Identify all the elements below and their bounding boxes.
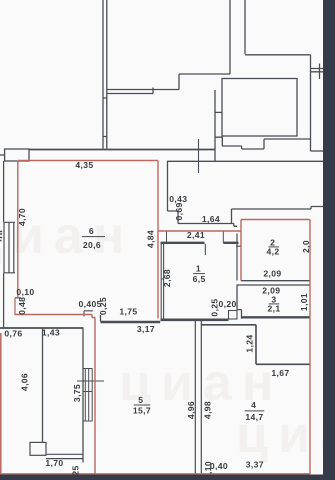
room 6 label [82, 226, 105, 250]
label 0,10 rotated bottom [203, 461, 213, 474]
wall: room3 bottom y=317.3 [242, 316, 311, 318]
label 1,64 [202, 214, 220, 224]
svg-text:15,7: 15,7 [133, 406, 151, 416]
wall: top-left double vertical corridor wall x=103/107 [103, 0, 107, 149]
square box bottom-left [30, 442, 46, 455]
wall: stepped landing wall y=146/149/139 [222, 139, 311, 149]
label 1,70 [45, 458, 63, 468]
label 1,75 [119, 307, 137, 317]
red: room1 top y=231 [158, 230, 241, 232]
svg-text:4,96: 4,96 [186, 401, 196, 419]
wall: room1 bottom y=319.8 [161, 318, 229, 321]
svg-text:3,37: 3,37 [246, 460, 264, 470]
red: right boundary x=310 [309, 220, 311, 475]
svg-text:1,01: 1,01 [299, 293, 309, 311]
wall: room2 bottom y=280.7 [241, 280, 310, 282]
red: jog down to x=95 [92, 315, 95, 318]
red: left image-edge line [0, 333, 2, 475]
red: room6 bottom edge [15, 314, 93, 316]
svg-text:0,25: 0,25 [98, 297, 108, 315]
pier rectangle top-left [5, 149, 29, 161]
svg-text:1,64: 1,64 [202, 214, 220, 224]
room 4 label [245, 400, 265, 422]
svg-text:4,84: 4,84 [145, 230, 155, 248]
room 5 label [133, 395, 151, 416]
wall: left exterior x=3.6 lower [3, 273, 5, 328]
label 0,43 [169, 194, 187, 204]
svg-text:0,69: 0,69 [174, 202, 184, 220]
svg-text:3,17: 3,17 [137, 324, 155, 334]
red: left boundary down to bottom [94, 318, 96, 475]
wall: room1/room2 wall x=237 [236, 234, 241, 281]
wall: step up to y=74 [179, 74, 230, 90]
wall: entrance wall y=242.8 left segment [161, 242, 205, 244]
window symbol top-right [311, 64, 325, 80]
svg-text:1,24: 1,24 [245, 334, 255, 352]
label 0,48 rotated [17, 297, 27, 315]
label 1,43 [42, 328, 60, 338]
label 2,41 [187, 230, 205, 240]
wall: horizontal y=54 to right [245, 54, 311, 56]
wall: vertical x=230 from top [229, 0, 231, 74]
wall: room5 top wall y=322 [101, 321, 161, 324]
wall: bottom-left horizontal y=328 [0, 327, 84, 329]
red: room6 left edge [17, 161, 19, 298]
wall: long landing wall y=161 [167, 160, 324, 162]
wall: room4 top with notch [202, 325, 311, 365]
shaft box at room1 SE corner [229, 311, 238, 320]
label 2,68 rotated [162, 269, 172, 287]
label 4,84 rotated [145, 230, 155, 248]
svg-text:0,10: 0,10 [16, 287, 34, 297]
svg-text:0,48: 0,48 [17, 297, 27, 315]
svg-text:4,98: 4,98 [202, 401, 212, 419]
svg-text:1: 1 [196, 264, 201, 274]
dimension and room labels [4, 160, 310, 476]
label 4,35 [75, 160, 93, 170]
svg-text:5: 5 [138, 395, 143, 405]
wall: niche step 0,43/0,69 [168, 161, 179, 223]
label 0,20 [219, 299, 237, 309]
label 3,17 [137, 324, 155, 334]
wall: room3 top y=285 [237, 284, 311, 286]
red: bottom boundary above dark band [0, 473, 310, 475]
svg-text:0,20: 0,20 [219, 299, 237, 309]
label 0,40 [210, 461, 228, 471]
red: room6/room1 right edge x=158 [157, 161, 159, 319]
wall: entrance wall y=242.8 right segment [223, 242, 238, 244]
red: 0,48 step [14, 298, 16, 315]
watermark row 1 (center) [119, 354, 283, 412]
wall: exterior vertical x=310.5 [310, 55, 312, 151]
svg-text:4: 4 [251, 400, 256, 410]
wall: left exterior x=3.6 upper [3, 161, 5, 222]
label 0,25 rotated (room1) [210, 298, 220, 316]
svg-text:2,1: 2,1 [268, 303, 281, 313]
label 4,96 rotated [186, 401, 196, 419]
svg-text:2,68: 2,68 [162, 269, 172, 287]
red apartment outline [0, 161, 310, 476]
svg-text:1,70: 1,70 [45, 458, 63, 468]
wall: corridor wall y=223.5 with jog [178, 224, 237, 227]
double wall y=454.3/458.6 [46, 454, 83, 458]
wall: small step right of room6 bottom [100, 315, 102, 322]
watermark row 2 (bottom right, partial) [236, 406, 335, 464]
red: room2 left x=241 [240, 220, 242, 281]
label 1,67 [271, 368, 289, 378]
label 0,25 rotated (room6 jog) [98, 297, 108, 315]
neighbour room rectangle (222,78.5)-(297,136) [222, 79, 297, 137]
wall: corridor wall y=209 right section with jog to band [232, 207, 325, 224]
svg-text:6: 6 [89, 226, 94, 236]
stair hatch strip left [4, 222, 16, 273]
tick: door jamb x=223.3 [222, 231, 224, 243]
svg-text:4,35: 4,35 [75, 160, 93, 170]
svg-text:4,70: 4,70 [17, 208, 27, 226]
label 3,37 [246, 460, 264, 470]
window room5 left [77, 369, 104, 422]
label 0,405 [78, 299, 101, 309]
svg-text:6,5: 6,5 [193, 274, 206, 284]
label 1,01 rotated [299, 293, 309, 311]
wall: horizontal double wall y=89.5/93.5 going right [107, 88, 179, 94]
dark band bottom [0, 475, 335, 480]
label 25 rotated [71, 465, 81, 475]
watermark row 0 (top, partial) [0, 207, 134, 265]
wall: room5 left exterior x=83 [82, 328, 84, 463]
red: room2 top y=219.5 [241, 219, 310, 221]
label 4,06 rotated [20, 373, 30, 391]
svg-text:25: 25 [71, 465, 81, 475]
svg-text:14,7: 14,7 [245, 412, 263, 422]
cut-off text marks at left edge [0, 232, 2, 241]
wall: vertical x=42.5 [42, 328, 44, 442]
svg-text:4,2: 4,2 [267, 246, 280, 256]
wall: vertical x=245 from top [244, 0, 246, 54]
label 2,09 upper [263, 268, 281, 278]
label 1,24 rotated [245, 334, 255, 352]
room 1 label [193, 264, 206, 284]
label 2,0 rotated [301, 240, 311, 253]
svg-text:1,67: 1,67 [271, 368, 289, 378]
label 0,69 rotated [174, 202, 184, 220]
label 4,98 rotated [202, 401, 212, 419]
svg-text:0,40: 0,40 [210, 461, 228, 471]
label 0,76 [4, 329, 22, 339]
svg-text:1,43: 1,43 [42, 328, 60, 338]
tick: door jamb x=166.5 [166, 231, 168, 243]
wall: neighbour room right edge x=215 [215, 90, 222, 162]
door leaf vertical through landing wall x=198.5 [198, 139, 200, 173]
label 3,75 rotated [72, 384, 82, 402]
wall: long wall y=148.5 from pier to x=190 [29, 149, 215, 151]
svg-text:0,76: 0,76 [4, 329, 22, 339]
dark band right [323, 0, 335, 480]
svg-text:2,41: 2,41 [187, 230, 205, 240]
room 3 label [268, 294, 281, 313]
wall: room1 left double wall [161, 244, 163, 319]
svg-text:20,6: 20,6 [83, 240, 101, 250]
svg-text:2,09: 2,09 [263, 268, 281, 278]
label 4,70 rotated [17, 208, 27, 226]
label 0,10 [16, 287, 34, 297]
wall: room3 left with jog [237, 285, 242, 319]
svg-text:4,06: 4,06 [20, 373, 30, 391]
label 2,09 lower [262, 285, 280, 295]
door leaf at entrance [204, 244, 206, 255]
tick: pier to image edge [0, 154, 5, 156]
svg-text:2,0: 2,0 [301, 240, 311, 253]
red: room6 top edge [18, 160, 158, 162]
room 2 label [267, 238, 280, 257]
wall: rooms 4/5 divider double [195, 321, 201, 474]
black tick 0,10 step [15, 298, 21, 315]
wall: horizontal y=151 to dark edge [311, 150, 325, 152]
black tick 0,405 step [84, 311, 93, 317]
svg-text:3,75: 3,75 [72, 384, 82, 402]
svg-text:1,75: 1,75 [119, 307, 137, 317]
